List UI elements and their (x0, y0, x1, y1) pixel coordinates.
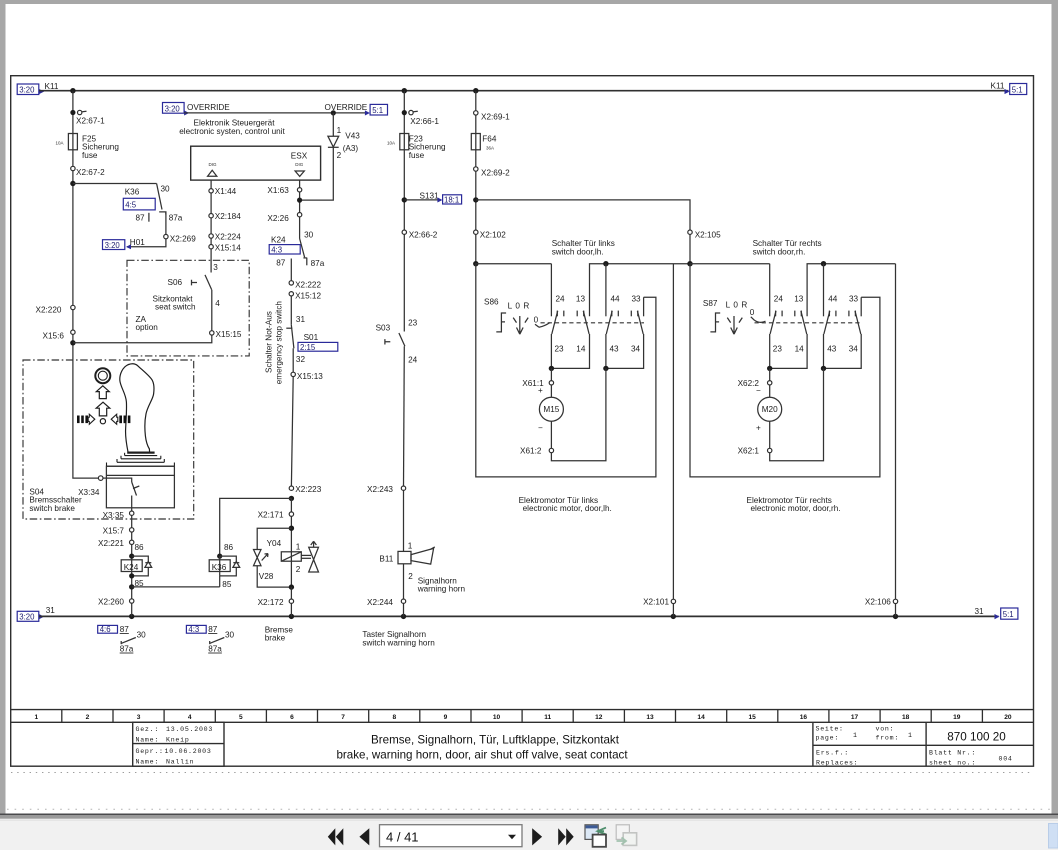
junction X2:67-2 / K36 feed (70, 181, 75, 186)
svg-text:K24: K24 (271, 235, 286, 244)
wire X15:13 to X2:223 (291, 377, 293, 486)
wire 85 link K24-K36 (132, 586, 220, 588)
svg-text:X1:44: X1:44 (215, 187, 237, 196)
toolbar extract-page icon (enabled) (585, 825, 606, 847)
svg-text:Ers.f.:: Ers.f.: (816, 749, 849, 756)
connector X2:66-1 (402, 110, 407, 115)
perforation dotted line near page bottom (7, 808, 1051, 810)
svg-text:13: 13 (794, 294, 804, 303)
svg-text:Gez.:: Gez.: (136, 726, 160, 733)
junction 23/14 right (767, 366, 772, 371)
junction supply corner left door (473, 261, 478, 266)
wire branch to K36 coil (220, 498, 292, 556)
svg-text:30: 30 (137, 631, 147, 640)
svg-text:23: 23 (773, 345, 783, 354)
wire X2:243 to B11 (403, 490, 405, 551)
svg-text:24: 24 (408, 356, 418, 365)
connector X2:220 (71, 305, 75, 309)
svg-text:X15:15: X15:15 (216, 330, 242, 339)
gray band under page (0, 815, 1058, 819)
svg-text:33: 33 (849, 294, 859, 303)
svg-text:X2:105: X2:105 (695, 231, 721, 240)
svg-text:X2:102: X2:102 (480, 230, 506, 239)
svg-text:X1:63: X1:63 (267, 186, 289, 195)
wire S06 to X15:15 (211, 290, 213, 331)
wire F64 branch (475, 91, 477, 264)
pin X1:63 (297, 188, 301, 192)
contact 33/34 left door (643, 297, 645, 316)
svg-text:1: 1 (853, 732, 858, 739)
junction OVERRIDE / V43 (331, 110, 336, 115)
contact 44/43 left door (603, 261, 608, 266)
junction rail/X2:244 (401, 614, 406, 619)
scrollbar nub bottom right (1049, 824, 1058, 849)
svg-text:X2:101: X2:101 (643, 597, 669, 606)
svg-text:(A3): (A3) (343, 144, 359, 153)
svg-text:30: 30 (161, 185, 171, 194)
svg-text:14: 14 (795, 345, 805, 354)
svg-text:−: − (538, 423, 543, 432)
connector X2:172 (289, 599, 293, 603)
joystick base box (106, 466, 174, 508)
switch S87 actuator arrows (727, 318, 742, 323)
wire X2:101 drop (672, 264, 674, 600)
svg-text:X2:26: X2:26 (267, 214, 289, 223)
svg-text:44: 44 (828, 294, 838, 303)
svg-text:43: 43 (827, 345, 837, 354)
svg-text:V28: V28 (259, 572, 274, 581)
wire main through valve Y04 (290, 498, 292, 587)
connector X61:1 (550, 368, 552, 380)
solenoid coil Y04 (281, 552, 301, 561)
svg-text:switch door,lh.: switch door,lh. (552, 247, 604, 256)
joystick up arrow 1 (96, 386, 109, 399)
air shut off valve symbol (301, 554, 311, 556)
svg-text:10: 10 (493, 714, 501, 721)
seat switch S06 dash-dot box (127, 260, 249, 356)
fuse F23 (400, 134, 409, 150)
connector X15:7 (131, 515, 133, 527)
svg-text:7: 7 (341, 714, 345, 721)
svg-text:Gepr.:: Gepr.: (136, 748, 164, 755)
svg-text:X2:172: X2:172 (258, 598, 284, 607)
svg-text:30: 30 (304, 231, 314, 240)
svg-text:option: option (136, 323, 159, 332)
junction Y04 out / V28 (289, 584, 294, 589)
svg-text:X2:260: X2:260 (98, 598, 124, 607)
svg-text:33: 33 (632, 294, 642, 303)
svg-text:2:15: 2:15 (300, 343, 316, 352)
wire X15:15 to X15:6 junction (73, 335, 212, 343)
svg-text:87: 87 (120, 625, 130, 634)
toolbar previous-page button (359, 828, 369, 845)
relay coil K36 (217, 554, 222, 559)
svg-text:X15:12: X15:12 (295, 292, 321, 301)
wire S131 to reference 18:1 (404, 199, 439, 201)
svg-text:87a: 87a (169, 214, 183, 223)
svg-text:X2:66-1: X2:66-1 (410, 117, 439, 126)
svg-text:5:1: 5:1 (372, 106, 383, 115)
svg-text:24: 24 (774, 294, 784, 303)
svg-text:1: 1 (34, 714, 38, 721)
svg-text:emergency stop switch: emergency stop switch (275, 301, 284, 385)
toolbar insert-page icon (disabled) (616, 825, 636, 846)
junction X2:171 / V28 branch (289, 526, 294, 531)
svg-text:warning horn: warning horn (417, 585, 466, 594)
toolbar page combo box (380, 825, 523, 847)
svg-text:34: 34 (631, 345, 641, 354)
svg-text:brake, warning horn, door, air: brake, warning horn, door, air shut off … (336, 749, 628, 762)
svg-text:23: 23 (408, 318, 418, 327)
connector X15:13 (291, 372, 295, 376)
joystick right stripes over handle (119, 416, 130, 424)
svg-text:3:20: 3:20 (19, 86, 35, 95)
contact 13/14 right door (807, 264, 895, 317)
svg-text:X2:66-2: X2:66-2 (409, 230, 438, 239)
actuator dashed line left door (541, 322, 645, 324)
svg-text:fuse: fuse (82, 151, 98, 160)
wire K36 contact feed (73, 183, 157, 185)
actuator dashed line right door (755, 322, 862, 324)
svg-text:4: 4 (215, 299, 220, 308)
svg-text:Nallin: Nallin (166, 759, 194, 766)
svg-text:M20: M20 (762, 405, 778, 414)
svg-text:X15:6: X15:6 (43, 332, 65, 341)
svg-text:87: 87 (136, 214, 146, 223)
connector X3:34 (98, 476, 103, 481)
svg-text:S06: S06 (168, 278, 183, 287)
wire X2:67 branch from K11 rail (73, 91, 101, 478)
junction rail/X2:106 (893, 614, 898, 619)
svg-text:S87: S87 (703, 299, 718, 308)
wire left door supply loop (476, 264, 656, 477)
svg-text:4:6: 4:6 (100, 625, 111, 634)
wire X15:12 to S01 (290, 296, 292, 325)
mirror contact reference K24 (4:6 87/30/87a) (98, 625, 118, 633)
svg-text:K24: K24 (124, 563, 139, 572)
svg-text:K11: K11 (45, 82, 59, 91)
svg-text:Name:: Name: (136, 759, 160, 766)
junction X2:105 branch (473, 197, 478, 202)
svg-text:fuse: fuse (409, 151, 425, 160)
diode V43 (332, 113, 334, 136)
svg-text:4:5: 4:5 (125, 201, 137, 210)
connector X2:269 (164, 234, 168, 238)
svg-text:13.05.2003: 13.05.2003 (166, 726, 213, 733)
svg-text:30: 30 (225, 631, 235, 640)
control unit ESX box (191, 146, 321, 180)
svg-text:L 0 R: L 0 R (508, 302, 530, 311)
svg-text:1: 1 (408, 542, 413, 551)
svg-text:2: 2 (296, 565, 301, 574)
toolbar last-page button (558, 828, 574, 845)
joystick handle (120, 364, 154, 453)
connector X2:260 (130, 599, 134, 603)
svg-text:from:: from: (876, 735, 900, 742)
junction 43/34 right (821, 366, 826, 371)
svg-text:44: 44 (611, 294, 621, 303)
svg-text:31: 31 (46, 606, 56, 615)
svg-text:Seite:: Seite: (816, 725, 844, 732)
connector X2:26 (297, 213, 301, 217)
fuse F25 (68, 134, 77, 150)
svg-text:X2:171: X2:171 (258, 511, 284, 520)
wire S01 to X15:13 (292, 348, 294, 372)
svg-text:S131: S131 (420, 191, 440, 200)
svg-text:X2:269: X2:269 (170, 235, 196, 244)
svg-text:X15:14: X15:14 (215, 243, 241, 252)
svg-text:5: 5 (239, 714, 243, 721)
junction K11/X2:66 (402, 88, 407, 93)
svg-text:X2:69-2: X2:69-2 (481, 169, 510, 178)
junction K11/X2:67 (70, 88, 75, 93)
svg-text:Y04: Y04 (267, 539, 282, 548)
svg-text:Bremse, Signalhorn, Tür, Luftk: Bremse, Signalhorn, Tür, Luftklappe, Sit… (371, 734, 620, 747)
switch S86 detent symbol (496, 313, 506, 332)
svg-text:electronic motor, door,rh.: electronic motor, door,rh. (751, 504, 841, 513)
wire X62:1 return loop (770, 368, 824, 460)
wire X2:105 to door circuits (689, 234, 691, 263)
svg-text:15: 15 (749, 714, 757, 721)
svg-text:10A: 10A (387, 141, 395, 146)
joystick up arrow 2 (96, 402, 110, 416)
svg-text:31: 31 (296, 315, 306, 324)
junction rail/X2:101 (671, 614, 676, 619)
connector X2:106 (893, 599, 897, 603)
wire X1:44 column (210, 180, 212, 272)
switch S87 detent symbol (710, 313, 720, 332)
svg-text:86: 86 (224, 543, 234, 552)
node S131 reference box 18:1 (443, 195, 462, 204)
svg-text:K36: K36 (125, 188, 140, 197)
joystick base steps (125, 455, 158, 457)
svg-text:0: 0 (534, 315, 539, 324)
svg-text:S01: S01 (304, 333, 319, 342)
svg-text:10A: 10A (56, 141, 64, 146)
wire to H01 reference (127, 239, 166, 247)
svg-text:1: 1 (337, 126, 342, 135)
svg-text:+: + (538, 386, 543, 395)
svg-text:87a: 87a (311, 259, 325, 268)
svg-text:F64: F64 (482, 134, 497, 143)
svg-text:8: 8 (392, 714, 396, 721)
fuse F64 (471, 134, 480, 150)
toolbar first-page button (328, 828, 344, 845)
svg-text:17: 17 (851, 714, 859, 721)
svg-text:X2:222: X2:222 (295, 281, 321, 290)
connector X2:67-2 (71, 166, 75, 170)
svg-text:H01: H01 (130, 238, 145, 247)
svg-text:24: 24 (556, 294, 566, 303)
contact 24/23 left door (550, 264, 552, 317)
svg-text:X15:7: X15:7 (103, 526, 125, 535)
wire X1:63 column (299, 180, 301, 238)
contact 24/23 right door (769, 264, 771, 317)
connector X2:224 (209, 234, 213, 238)
svg-text:86: 86 (135, 543, 145, 552)
title block left box Gez/Gepr (133, 722, 224, 766)
svg-text:X2:106: X2:106 (865, 597, 891, 606)
svg-text:Blatt Nr.:: Blatt Nr.: (929, 749, 976, 756)
wire F23 branch (403, 91, 405, 332)
svg-text:X2:184: X2:184 (215, 212, 241, 221)
wire 87a to X2:269 (165, 213, 167, 235)
svg-text:switch door,rh.: switch door,rh. (753, 247, 806, 256)
svg-text:S03: S03 (376, 323, 391, 332)
dotted line under title block (11, 771, 1033, 773)
svg-text:B11: B11 (379, 554, 393, 563)
svg-text:4:3: 4:3 (188, 625, 199, 634)
brake switch S04 dash-dot box (23, 360, 194, 519)
connector X2:101 (671, 599, 675, 603)
wire 87 lead to X2:222 (290, 259, 292, 281)
wire B11 to X2:244 (403, 564, 405, 617)
svg-text:M15: M15 (543, 405, 559, 414)
wire V43 to X1:63 junction (300, 147, 334, 200)
svg-text:brake: brake (265, 634, 286, 643)
svg-text:Name:: Name: (136, 736, 160, 743)
svg-text:von:: von: (876, 725, 895, 732)
svg-text:X2:243: X2:243 (367, 485, 393, 494)
svg-text:−: − (756, 386, 761, 395)
svg-text:4:3: 4:3 (271, 246, 282, 255)
svg-text:seat switch: seat switch (155, 303, 196, 312)
svg-text:ESX: ESX (291, 151, 308, 160)
wire right door supply loop (690, 264, 880, 477)
wire X61:2 return loop (551, 368, 606, 460)
svg-text:5:1: 5:1 (1012, 86, 1023, 95)
contact 44/43 right door (821, 261, 826, 266)
svg-text:X3:35: X3:35 (103, 511, 125, 520)
svg-text:OVERRIDE: OVERRIDE (325, 103, 368, 112)
connector X62:1 (769, 421, 771, 448)
motor M15 (550, 385, 552, 397)
joystick handle base line (127, 452, 154, 454)
wire S03 to X2:243 (403, 346, 406, 486)
contact 33/34 right door (860, 297, 862, 316)
junction S131 (402, 197, 407, 202)
brake switch contact inside base (106, 478, 131, 482)
svg-text:OVERRIDE: OVERRIDE (187, 103, 230, 112)
svg-text:sheet no.:: sheet no.: (929, 759, 976, 766)
junction 43/34 (603, 366, 608, 371)
svg-text:page:: page: (816, 735, 840, 742)
wire X2:106 drop (895, 264, 897, 600)
svg-text:DIG: DIG (209, 162, 218, 167)
wire to X2:105 (476, 200, 690, 230)
svg-text:18: 18 (902, 714, 910, 721)
svg-text:electronic motor, door,lh.: electronic motor, door,lh. (523, 504, 612, 513)
svg-text:1: 1 (908, 732, 913, 739)
connector X2:243 (401, 486, 405, 490)
connector X2:221 (131, 532, 133, 540)
svg-text:X2:67-1: X2:67-1 (76, 117, 105, 126)
svg-text:X2:69-1: X2:69-1 (481, 113, 510, 122)
junction X1:63 / V43 (297, 198, 302, 203)
junction X2:223 / K36 coil branch (289, 496, 294, 501)
svg-text:L 0 R: L 0 R (726, 301, 748, 310)
motor M20 (769, 385, 771, 397)
connector X62:2 (769, 368, 771, 380)
joystick center circle (100, 419, 105, 424)
svg-text:87a: 87a (208, 645, 222, 654)
connector X2:171 (289, 512, 293, 516)
connector X2:102 (474, 230, 478, 234)
svg-text:DIG: DIG (295, 162, 304, 167)
svg-text:X2:67-2: X2:67-2 (76, 168, 105, 177)
svg-text:870 100 20: 870 100 20 (947, 731, 1006, 744)
svg-text:X2:244: X2:244 (367, 598, 393, 607)
connector X2:105 (688, 230, 692, 234)
svg-text:S86: S86 (484, 297, 499, 306)
connector X2:69-2 (474, 167, 478, 171)
node K11 reference box 5:1 top right (1005, 89, 1010, 94)
svg-text:85: 85 (222, 580, 232, 589)
svg-text:+: + (756, 423, 761, 432)
junction door top left corner (687, 261, 692, 266)
svg-text:14: 14 (576, 345, 586, 354)
svg-text:2: 2 (337, 151, 342, 160)
svg-text:switch brake: switch brake (29, 504, 75, 513)
mirror contact reference K36 (4:3 87/30/87a) (186, 625, 206, 633)
svg-text:X2:220: X2:220 (36, 306, 62, 315)
node 31 reference box 3:20 bottom left (17, 611, 39, 621)
suppressor diode V28 branch (257, 528, 291, 549)
svg-text:X62:1: X62:1 (738, 447, 760, 456)
svg-text:Replaces:: Replaces: (816, 759, 858, 766)
svg-text:9: 9 (444, 714, 448, 721)
connector X15:14 (209, 245, 213, 249)
svg-text:12: 12 (595, 714, 603, 721)
junction 85 wire (129, 584, 134, 589)
wire OVERRIDE (184, 112, 366, 114)
svg-text:11: 11 (544, 714, 551, 721)
svg-text:14: 14 (697, 714, 705, 721)
svg-text:X61:2: X61:2 (520, 447, 542, 456)
node H01 reference box 3:20 (103, 240, 125, 250)
svg-text:18:1: 18:1 (444, 196, 459, 205)
connector X2:69-1 (474, 111, 478, 115)
connector X15:12 (289, 292, 293, 296)
svg-text:2: 2 (86, 714, 90, 721)
junction K11/X2:69 (473, 88, 478, 93)
svg-text:87: 87 (276, 258, 286, 267)
svg-text:32: 32 (296, 355, 306, 364)
relay coil K24 (131, 545, 133, 617)
svg-text:Schalter Not-Aus: Schalter Not-Aus (265, 311, 274, 373)
toolbar next-page button (532, 828, 542, 845)
switch S86 actuator arrows (513, 318, 528, 323)
svg-text:X2:224: X2:224 (215, 232, 241, 241)
schematic frame border (11, 76, 1034, 767)
node 31 reference box 5:1 bottom right (995, 614, 1000, 619)
connector X15:6 (71, 330, 75, 334)
connector X2:66-2 (402, 230, 406, 234)
svg-text:switch warning horn: switch warning horn (362, 639, 435, 648)
connector X2:244 (401, 599, 405, 603)
svg-text:electronic systen, control uni: electronic systen, control unit (179, 127, 285, 136)
svg-text:23: 23 (555, 345, 565, 354)
joystick ring symbol (95, 368, 110, 383)
svg-text:13: 13 (576, 294, 586, 303)
connector X61:2 (550, 421, 552, 448)
svg-text:3: 3 (213, 263, 218, 272)
wire X2:172 to rail (290, 587, 292, 616)
contact 13/14 left door (590, 264, 691, 317)
svg-text:6: 6 (290, 714, 294, 721)
junction X15:6 / seat switch return (70, 340, 75, 345)
svg-text:X15:13: X15:13 (297, 372, 323, 381)
